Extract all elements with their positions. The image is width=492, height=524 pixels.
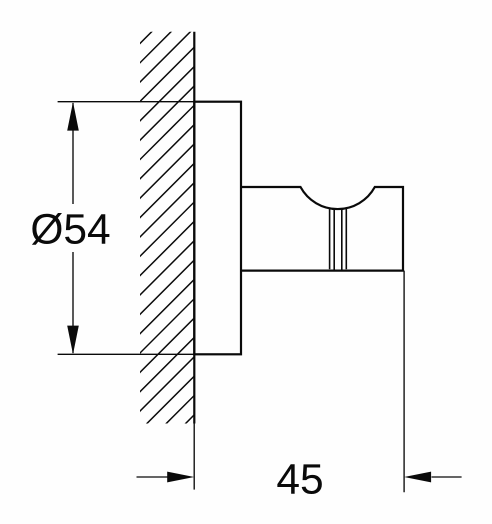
45 dimension right leader [432, 476, 462, 478]
45 arrow pointing right at wall [167, 472, 194, 483]
45 arrow pointing left at hook face [404, 472, 431, 483]
extension line bottom (Ø54) [58, 353, 241, 355]
hook waist line outer-left [329, 209, 331, 270]
hook waist line inner-left [333, 209, 335, 270]
Ø54 dimension line upper segment [72, 103, 74, 204]
extension line top (Ø54) [58, 101, 241, 103]
hook waist line outer-right [345, 209, 347, 270]
Ø54 dimension line lower segment [72, 252, 74, 353]
Ø54 arrow down [67, 326, 79, 355]
wall surface line [193, 32, 195, 424]
extension line below wall (45) [193, 424, 195, 490]
hook body profile [241, 187, 403, 271]
extension line below hook face (45) [403, 271, 405, 493]
Ø54 arrow up [67, 102, 79, 131]
hook waist line inner-right [341, 209, 343, 270]
mounting plate (side view, Ø54 rosette) [194, 102, 241, 355]
45 dimension left leader [137, 476, 169, 478]
wall hatching [128, 0, 206, 500]
svg-text:45: 45 [276, 457, 323, 504]
svg-text:Ø54: Ø54 [30, 207, 110, 254]
